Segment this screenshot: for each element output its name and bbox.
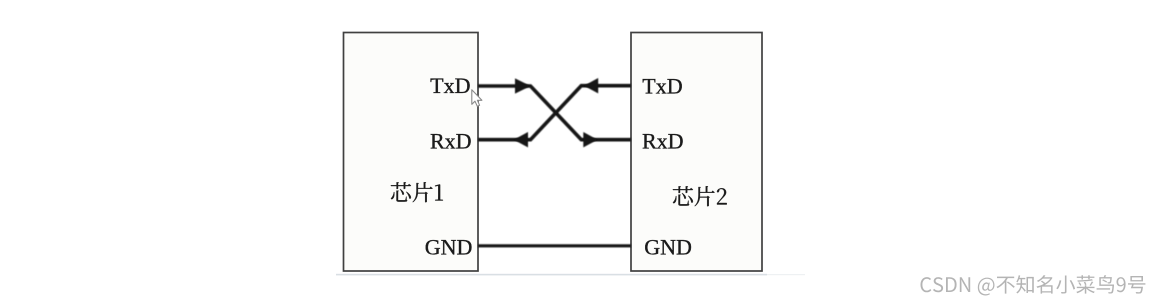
svg-text:GND: GND (425, 234, 473, 259)
svg-text:TxD: TxD (430, 73, 470, 98)
svg-text:TxD: TxD (642, 74, 682, 99)
svg-text:GND: GND (644, 234, 692, 259)
svg-text:RxD: RxD (642, 129, 684, 154)
svg-text:RxD: RxD (430, 129, 472, 154)
